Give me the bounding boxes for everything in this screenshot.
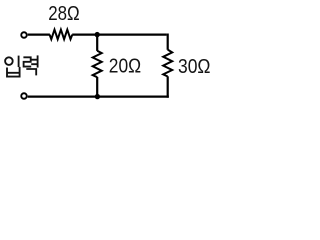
wire	[28, 33, 50, 35]
label 입력 (input)	[5, 55, 38, 76]
resistor R 30Ω	[163, 50, 172, 77]
svg-text:20Ω: 20Ω	[109, 55, 141, 78]
wire (30Ω bottom lead to corner)	[167, 76, 169, 97]
wire (bottom rail)	[28, 95, 169, 97]
input terminal bottom	[21, 93, 27, 99]
glyph 력 : yeo vertical	[37, 55, 39, 67]
glyph 입 : i vertical	[18, 56, 20, 67]
resistor R 28Ω	[50, 30, 73, 40]
svg-text:28Ω: 28Ω	[48, 2, 79, 25]
glyph 입 : bieup	[7, 67, 20, 77]
resistor R 20Ω	[93, 51, 102, 77]
node junction bottom	[95, 94, 100, 99]
input terminal top	[21, 32, 27, 38]
wire (20Ω top lead)	[96, 35, 98, 51]
svg-text:30Ω: 30Ω	[178, 55, 211, 78]
node junction top	[95, 32, 100, 37]
glyph 력 : yeo ticks	[31, 60, 37, 64]
wire (20Ω bottom lead)	[96, 77, 98, 97]
glyph 력 : final giyeok	[26, 69, 36, 75]
wire	[167, 34, 169, 50]
glyph 력 : rieul	[23, 57, 31, 66]
wire	[72, 33, 166, 35]
glyph 입 : ieung circle	[5, 57, 13, 65]
